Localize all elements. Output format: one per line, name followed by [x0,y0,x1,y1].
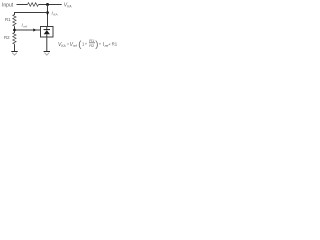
op-amp U1 TL431 box [41,27,54,38]
svg-text:×: × [109,43,111,47]
wire R1 to R2 [14,27,16,34]
svg-text:R1: R1 [112,42,118,47]
svg-text:Input: Input [2,3,14,9]
resistor R2 [13,33,16,46]
junction ref divider node [13,29,16,32]
wire ref horizontal [15,29,41,31]
svg-text:KA: KA [61,44,65,48]
wire anode to ground [46,37,48,52]
wire feedback top horizontal [15,13,48,16]
wire input to resistor [17,4,28,6]
label R1 [5,17,11,22]
current arrow Iref [33,28,36,31]
node VKA label [64,3,72,9]
resistor R1 [13,15,16,28]
equation VKA = Vref (1 + R1/R2) + Iref x R1 [58,38,118,50]
svg-text:R2: R2 [4,35,10,40]
node label Input [2,3,14,9]
label IKA [52,11,58,17]
junction feedback tap [46,11,48,13]
svg-text:KA: KA [53,13,57,17]
wire R2 to ground [14,45,16,52]
TL431 internal zener symbol [44,27,50,38]
svg-text:R1: R1 [5,17,11,22]
label R2 [4,35,10,40]
svg-text:R2: R2 [89,43,94,48]
current arrow IKA [46,12,49,15]
wire cathode vertical [47,5,49,27]
junction cathode node [46,3,49,6]
wire resistor to VKA terminal [39,4,62,6]
resistor Rin [28,3,39,7]
ground left [11,52,17,56]
ground right [44,52,50,56]
label Iref [22,23,29,29]
svg-text:KA: KA [67,5,71,9]
